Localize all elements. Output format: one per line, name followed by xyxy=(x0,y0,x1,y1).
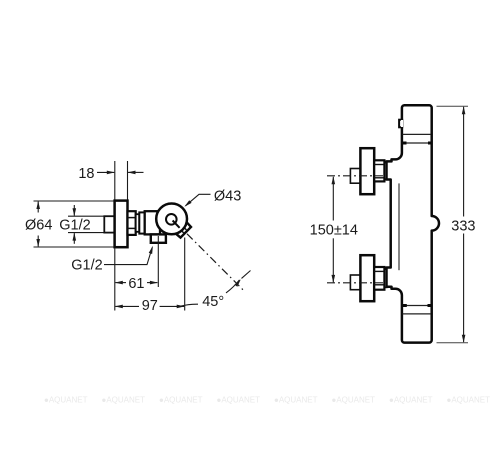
dim 150+-14 line and arrows xyxy=(332,177,334,282)
svg-text:97: 97 xyxy=(142,298,158,314)
dim D64 extension lines xyxy=(34,201,115,247)
dim G1/2 upper arrows xyxy=(73,205,75,244)
body outline xyxy=(387,105,440,342)
main body circle D43 xyxy=(156,204,187,235)
wall pipe stub xyxy=(104,216,114,232)
extension line below outlet stub (61 right) xyxy=(157,236,159,287)
lower junction xyxy=(406,305,428,307)
lower section line xyxy=(403,313,432,315)
top union nut xyxy=(374,160,384,181)
top union dash-dot centerline xyxy=(327,175,391,177)
bottom union dash-dot centerline xyxy=(327,282,391,284)
extension line left (61/97 left) xyxy=(114,249,116,311)
spout hatch lines xyxy=(180,226,187,233)
dim 18 line and arrows xyxy=(97,171,144,173)
bottom union nut xyxy=(374,267,384,290)
knob safety button notch xyxy=(399,120,402,128)
handle axis circle xyxy=(166,214,177,225)
knob/body junction xyxy=(405,142,429,144)
ring large xyxy=(139,212,144,233)
svg-text:●AQUANET: ●AQUANET xyxy=(332,396,376,405)
svg-text:18: 18 xyxy=(78,166,94,182)
dim 18 extension lines xyxy=(115,161,128,200)
valve body block xyxy=(145,211,160,234)
45deg axis dash-dot line xyxy=(187,234,243,290)
label D43 leader xyxy=(186,194,211,206)
svg-text:333: 333 xyxy=(451,218,475,234)
top wall flange xyxy=(360,148,374,194)
svg-text:Ø64: Ø64 xyxy=(25,218,52,234)
svg-text:●AQUANET: ●AQUANET xyxy=(102,396,146,405)
connector nut xyxy=(128,211,136,235)
svg-text:●AQUANET: ●AQUANET xyxy=(447,396,491,405)
svg-text:●AQUANET: ●AQUANET xyxy=(217,396,261,405)
body inner contour line xyxy=(398,183,400,270)
svg-text:61: 61 xyxy=(128,276,144,292)
outlet spout 45deg xyxy=(175,221,191,237)
dim 333 extension lines xyxy=(437,106,469,343)
svg-text:45°: 45° xyxy=(202,294,224,310)
bottom union step xyxy=(384,269,386,287)
handle axis line xyxy=(173,221,180,228)
wall flange xyxy=(115,201,128,248)
svg-text:●AQUANET: ●AQUANET xyxy=(159,396,203,405)
dim 333 line and arrows xyxy=(463,107,465,342)
svg-text:G1/2: G1/2 xyxy=(59,218,90,234)
45deg arc annotation xyxy=(180,271,251,307)
bottom wall flange xyxy=(360,255,374,301)
knob lower line xyxy=(403,133,432,135)
svg-text:G1/2: G1/2 xyxy=(71,258,102,274)
svg-text:●AQUANET: ●AQUANET xyxy=(389,396,433,405)
top wall pipe stub xyxy=(350,169,360,184)
svg-text:●AQUANET: ●AQUANET xyxy=(44,396,88,405)
svg-text:Ø43: Ø43 xyxy=(214,189,241,205)
ring small xyxy=(136,214,140,232)
watermark row xyxy=(44,396,490,405)
dim D64 line and arrows xyxy=(37,202,39,247)
bottom wall pipe stub xyxy=(350,275,360,290)
dim 61 line and arrows xyxy=(115,282,157,284)
dim G1/2 upper extension lines xyxy=(68,216,104,232)
bottom outlet stub G1/2 xyxy=(151,234,166,242)
dim 97 line and arrows xyxy=(115,305,184,307)
svg-text:150±14: 150±14 xyxy=(310,222,358,238)
top union step xyxy=(384,163,386,180)
svg-text:●AQUANET: ●AQUANET xyxy=(274,396,318,405)
extension line below spout (97 right) xyxy=(184,238,186,311)
